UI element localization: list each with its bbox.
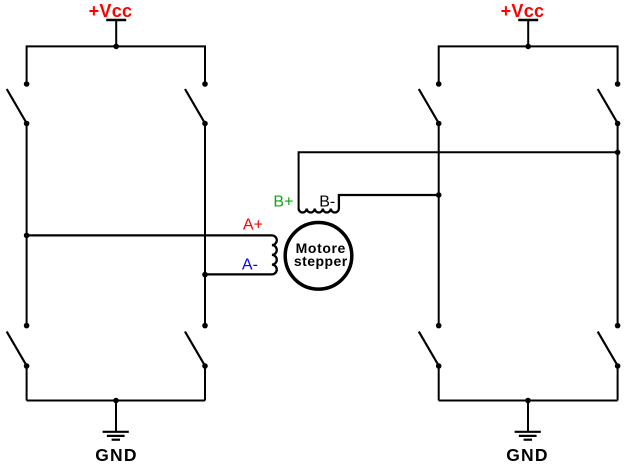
svg-text:A-: A- [242,257,258,274]
svg-text:A+: A+ [243,217,263,234]
svg-text:+Vcc: +Vcc [501,1,545,21]
svg-text:GND: GND [506,445,549,465]
svg-text:B-: B- [319,194,335,211]
svg-text:GND: GND [95,445,138,465]
svg-text:B+: B+ [273,194,293,211]
svg-text:stepper: stepper [294,253,348,269]
svg-text:+Vcc: +Vcc [89,1,133,21]
